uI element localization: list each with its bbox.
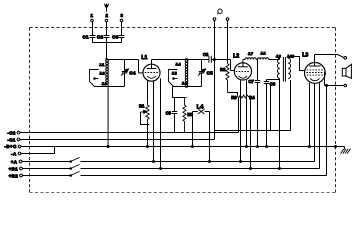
wire -C1 riser from phono P1 — [214, 20, 216, 139]
svg-text:J.2: J.2 — [99, 72, 104, 76]
IF transformer winding J10 — [287, 54, 294, 78]
wire terminal 3 to C3 — [121, 22, 123, 35]
variable capacitor C4 — [121, 60, 136, 87]
bus -C2 — [20, 132, 239, 134]
speaker — [342, 64, 351, 78]
capacitor C3 — [112, 34, 124, 39]
resistor R3 R4 — [231, 95, 255, 100]
svg-text:J.9: J.9 — [276, 54, 281, 58]
capacitor C7 — [248, 60, 260, 148]
R1 rheostat tap bracket — [141, 110, 150, 147]
wire L1 screen to +B1 — [160, 78, 162, 168]
wire bus down to antenna coil — [106, 43, 108, 60]
switch on +B1 line — [23, 164, 80, 169]
phono terminal P1 — [213, 18, 216, 21]
svg-text:C2: C2 — [97, 34, 104, 39]
wire L4 right to +A — [209, 112, 211, 162]
wire L1 filament to +A — [153, 81, 155, 161]
switch on +B2 line — [23, 171, 80, 176]
crystal detector L4 — [193, 104, 210, 114]
terminal 1 — [91, 13, 94, 22]
wire IF primary foot to +B1 — [279, 80, 281, 169]
terminal -B+C — [4, 144, 20, 149]
antenna coil — [105, 58, 108, 84]
svg-text:J.5: J.5 — [172, 72, 177, 76]
tube L3 — [302, 53, 325, 84]
svg-text:C9: C9 — [166, 111, 172, 116]
output terminal bottom — [344, 84, 347, 87]
oscillator coil — [185, 58, 188, 87]
variable capacitor C5 — [198, 60, 213, 87]
wire switch J4 bottom to C9 R5 — [173, 87, 187, 98]
svg-text:2: 2 — [106, 13, 109, 18]
svg-text:-A: -A — [11, 151, 17, 156]
svg-text:R1: R1 — [139, 103, 145, 108]
wire L1 cathode to R1 — [147, 81, 149, 101]
wire R2 to R3 — [228, 93, 238, 96]
plate wire L2 to IF transformer — [243, 59, 280, 61]
IF transformer winding J9 — [276, 54, 281, 79]
wire R3 junction to -C2 end — [238, 97, 240, 133]
wire coil bottom to B+C bus — [107, 85, 109, 147]
wire +B2 riser to output — [326, 86, 328, 176]
svg-text:L2: L2 — [233, 54, 239, 60]
svg-text:J.1: J.1 — [99, 63, 104, 67]
band switch J1 J2 J3 — [90, 63, 125, 86]
bus +A — [81, 161, 315, 163]
svg-text:L3: L3 — [302, 53, 308, 59]
wire L3 filament to B+C — [309, 83, 311, 147]
wire IF return jumper — [270, 85, 272, 131]
resistor R5 — [183, 98, 194, 133]
resistor R2 — [220, 64, 229, 93]
IF choke J8 — [257, 51, 268, 59]
terminal 2 — [105, 13, 108, 22]
capacitor C8 — [203, 52, 211, 63]
wire R4 to +B1 — [250, 97, 252, 169]
wire L3 screen to +B1 end — [319, 82, 321, 168]
IF choke J7 — [245, 52, 256, 59]
svg-text:L1: L1 — [141, 55, 147, 61]
bus +B1 — [81, 168, 320, 170]
plate wire L1 to C8 — [152, 59, 209, 61]
wire C6 to IF secondary foot — [267, 79, 280, 81]
wire terminal 2 to C2 — [106, 22, 108, 35]
terminal -A — [11, 151, 21, 156]
plate wire L3 to output terminal — [315, 55, 344, 58]
terminal -C2 — [7, 130, 20, 135]
antenna — [104, 4, 109, 12]
tube L1 — [141, 55, 160, 81]
phono jack symbol — [217, 9, 222, 14]
resistor R1 — [139, 101, 149, 125]
wire IF secondary to L3 grid — [288, 57, 305, 71]
antenna bus wire — [93, 42, 122, 44]
bus +B2 — [81, 175, 327, 177]
bus B+C to ground — [21, 146, 345, 148]
wire grid drop to L1 — [139, 60, 143, 73]
svg-text:-C2: -C2 — [7, 130, 16, 135]
tube L2 — [233, 54, 251, 80]
svg-text:-C1: -C1 — [7, 137, 16, 142]
capacitor C9 — [166, 98, 178, 133]
output return wire — [325, 85, 344, 87]
svg-text:R3: R3 — [231, 95, 237, 100]
wire C1 C2 C3 to bus — [93, 38, 122, 43]
svg-text:C8: C8 — [203, 52, 209, 57]
svg-text:+A: +A — [11, 159, 18, 164]
wire L3 filament to +A end — [314, 83, 316, 161]
svg-text:3: 3 — [121, 13, 124, 18]
terminal 3 — [120, 13, 123, 22]
svg-text:J.3: J.3 — [102, 82, 107, 86]
capacitor C2 — [97, 34, 110, 39]
IF transformer core — [283, 57, 285, 82]
bus -C1 — [20, 139, 215, 141]
terminal +B2 — [9, 173, 23, 178]
switch on +A line — [22, 157, 80, 162]
terminal -C1 — [7, 137, 20, 142]
svg-text:+B2: +B2 — [9, 173, 19, 178]
svg-text:R2: R2 — [220, 67, 226, 72]
svg-text:+B1: +B1 — [9, 167, 19, 172]
svg-text:C3: C3 — [112, 34, 119, 39]
svg-text:C1: C1 — [82, 34, 89, 39]
terminal +B1 — [9, 167, 23, 172]
svg-text:C5: C5 — [207, 70, 214, 75]
wire -A join B+C — [21, 147, 55, 154]
svg-text:C7: C7 — [248, 79, 254, 84]
output terminal top — [344, 57, 347, 60]
wire phono P2 to R2 — [227, 20, 229, 63]
svg-text:J.8: J.8 — [260, 51, 265, 55]
terminal +A — [11, 159, 22, 164]
wire L2 filament to B+C — [246, 80, 248, 146]
ground — [341, 147, 351, 154]
chassis dashed border — [30, 28, 336, 193]
wire L2 filament to +A — [240, 80, 242, 161]
capacitor C6 — [264, 80, 276, 148]
svg-text:J.4: J.4 — [175, 62, 181, 66]
junction B+C at border — [335, 146, 337, 148]
wire L4 left to B+C — [192, 112, 194, 147]
wire C8 to L2 grid drop — [211, 60, 234, 71]
capacitor C1 — [82, 34, 95, 39]
band switch J4 J5 J6 — [169, 62, 202, 86]
svg-text:C4: C4 — [129, 70, 136, 75]
wire terminal 1 to C1 — [92, 22, 94, 35]
wire coil top to L1 grid drop — [107, 59, 139, 61]
svg-text:J.7: J.7 — [248, 52, 253, 56]
wire L3 tap to output line — [324, 72, 326, 86]
phono terminal P2 — [226, 18, 229, 21]
svg-text:-B+C: -B+C — [4, 144, 17, 149]
svg-text:1: 1 — [91, 13, 94, 18]
